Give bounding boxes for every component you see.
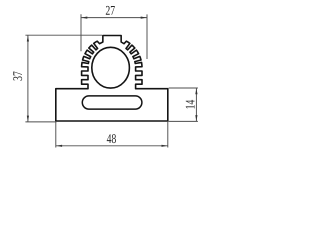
dim 37: extension lines bbox=[25, 34, 102, 36]
dim 27: extension lines bbox=[80, 14, 82, 51]
dim text 48 bbox=[107, 134, 116, 143]
dim 14: extension lines bbox=[169, 87, 198, 89]
dim 27: dimension line with arrows bbox=[81, 17, 147, 19]
profile outer contour: toothed tube on base plate bbox=[56, 36, 168, 122]
dim text 27 bbox=[106, 6, 115, 15]
dim 14: dimension line with arrows bbox=[195, 88, 197, 121]
bore circle bbox=[92, 47, 130, 88]
dim text 37 bbox=[13, 71, 22, 80]
dim 37: dimension line with arrows bbox=[27, 35, 29, 122]
slot (stadium) in base bbox=[82, 96, 142, 109]
dim 48: dimension line with arrows bbox=[56, 145, 168, 147]
dim 48: extension lines bbox=[55, 121, 57, 148]
dim text 14 bbox=[186, 100, 195, 109]
